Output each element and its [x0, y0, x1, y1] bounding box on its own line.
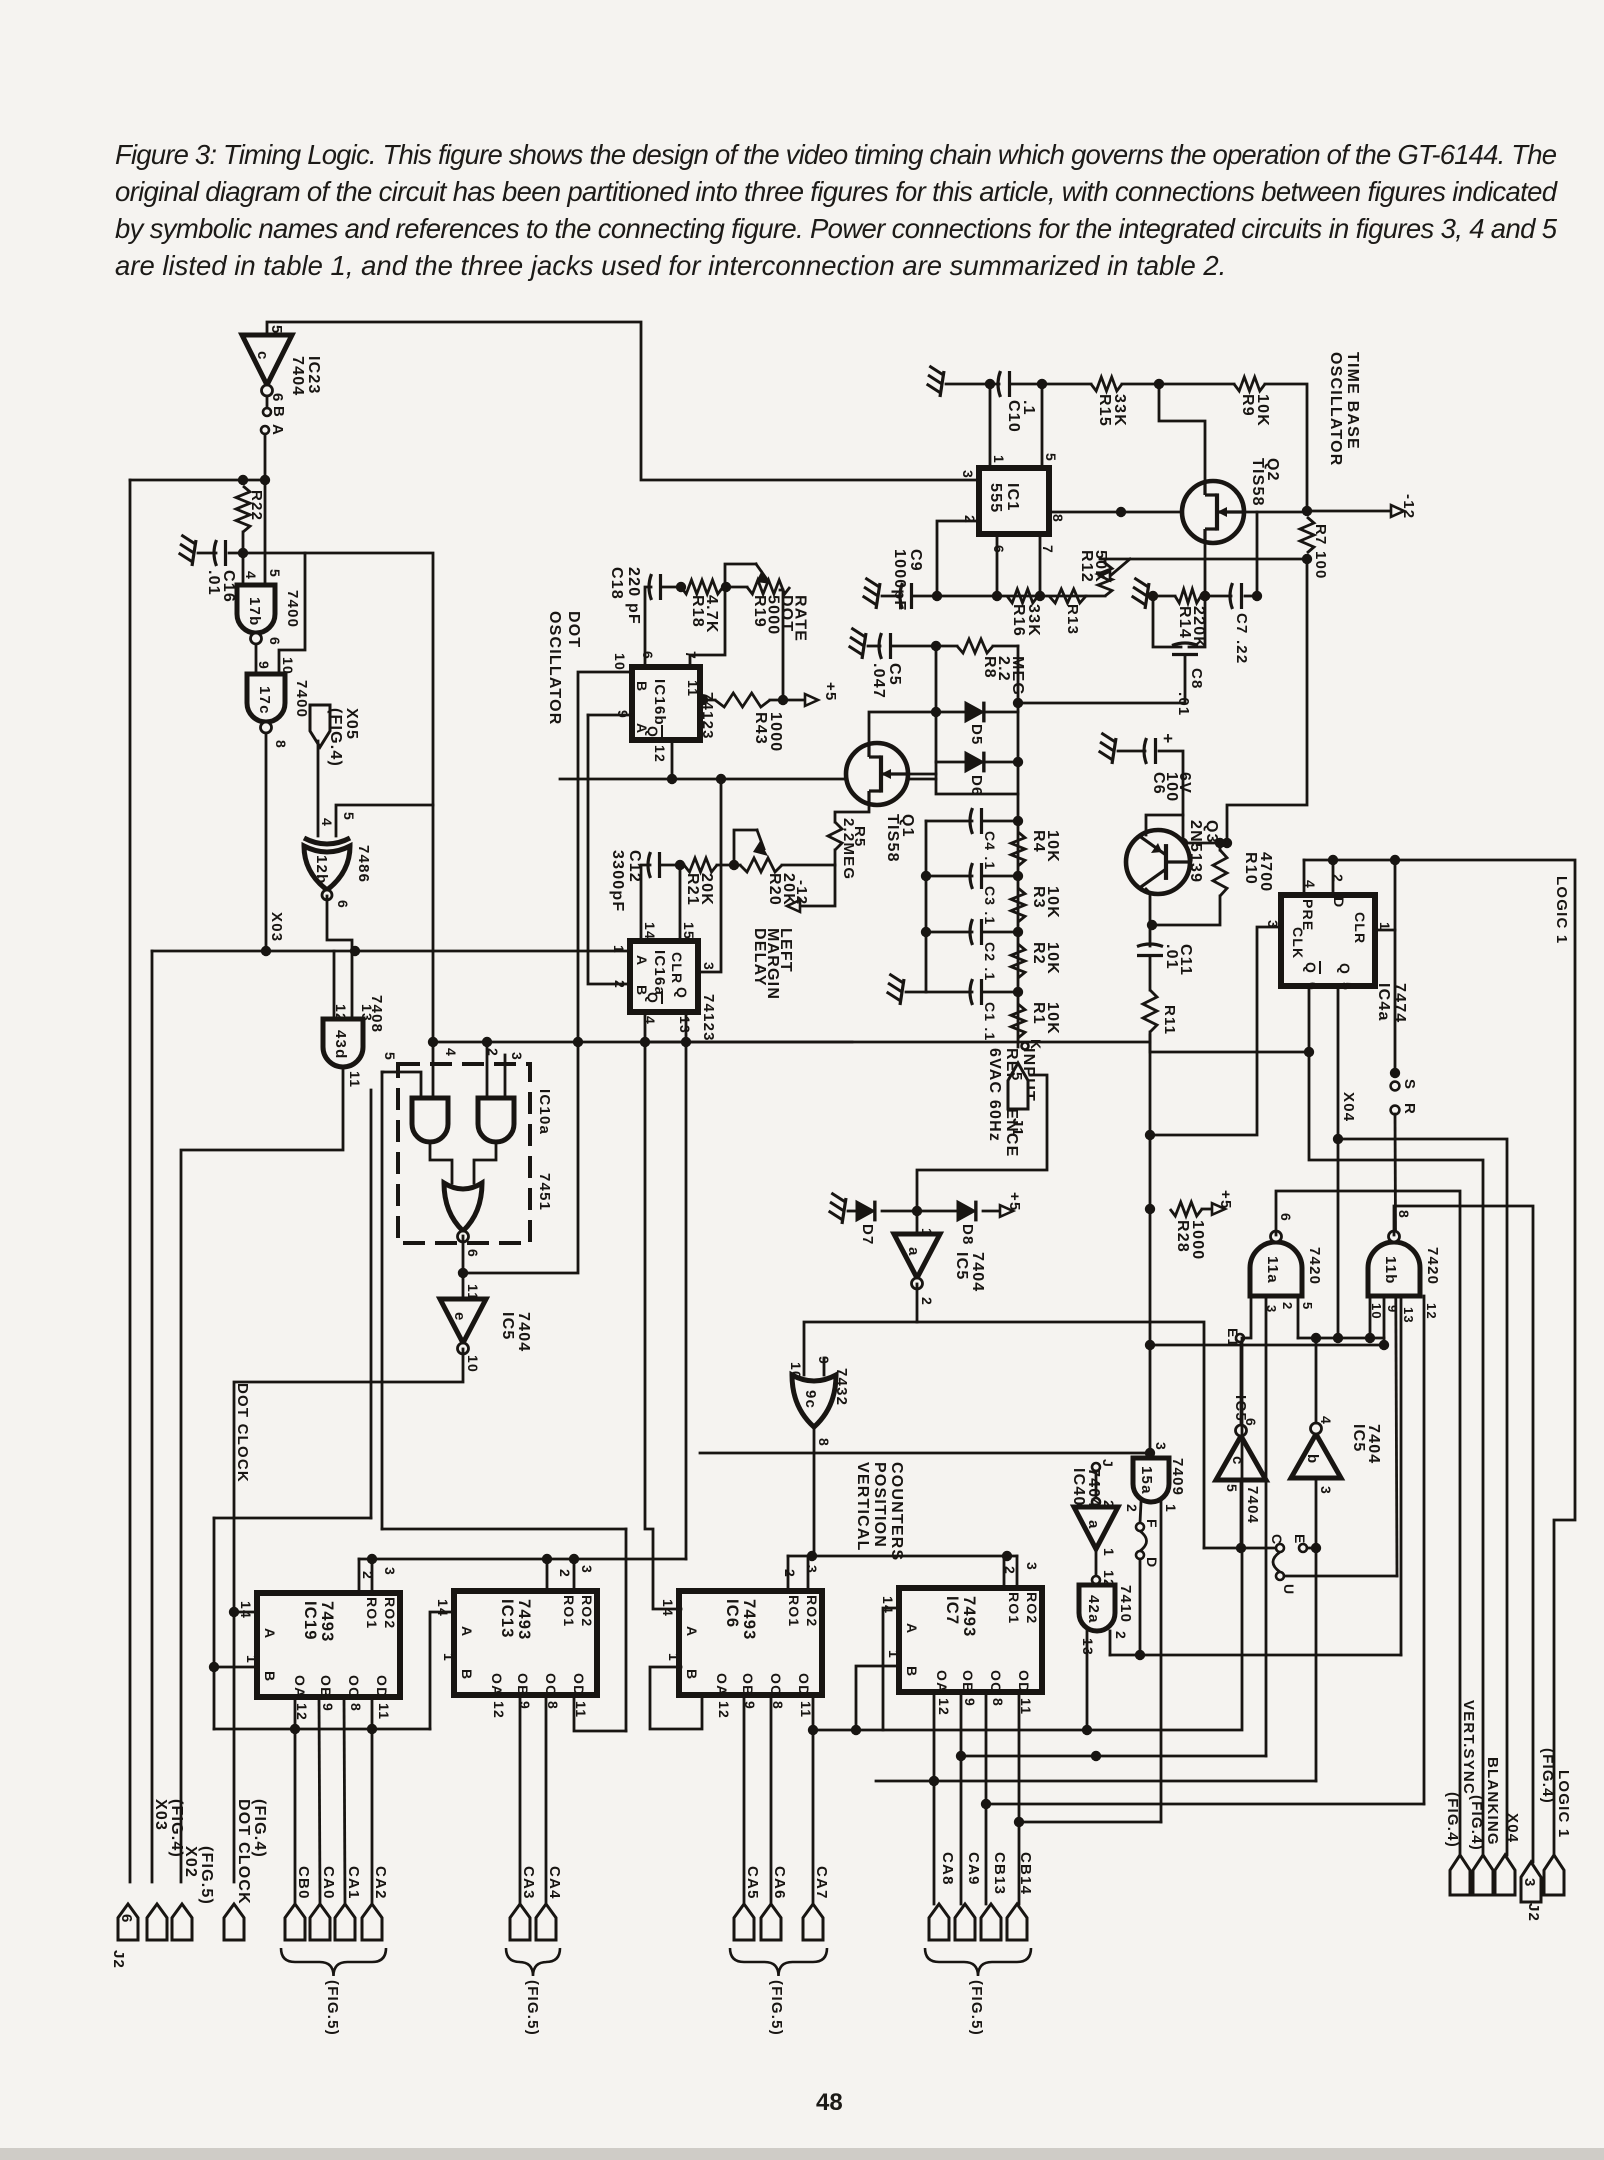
svg-text:2: 2	[962, 515, 978, 524]
junction 11b pin10 row	[1365, 1333, 1375, 1343]
svg-text:1: 1	[1163, 1504, 1179, 1513]
svg-text:DOT CLOCK(FIG.4): DOT CLOCK(FIG.4)	[235, 1799, 268, 1905]
svg-text:6: 6	[1278, 1213, 1294, 1222]
junction R43 right	[778, 695, 788, 705]
svg-text:3: 3	[1153, 1442, 1169, 1451]
svg-text:6: 6	[640, 651, 656, 660]
svg-text:CLR: CLR	[1352, 912, 1368, 944]
wire pin4 bus down	[645, 1042, 681, 1609]
junction R21-R20	[729, 860, 739, 870]
74123 label IC16b	[699, 692, 716, 740]
svg-text:4: 4	[319, 818, 335, 827]
connector CA2	[362, 1904, 382, 1940]
RO2 label IC19	[382, 1597, 398, 1629]
junction 42a pin1 cross	[1091, 1751, 1101, 1761]
wire Q2 drain up to R15-R9 junction	[1159, 384, 1205, 482]
connector CA1	[335, 1904, 355, 1940]
pin 11 label IC5e	[465, 1284, 481, 1301]
svg-text:10: 10	[612, 653, 628, 671]
pin 10 label IC16b	[612, 653, 628, 671]
C5 label	[870, 663, 903, 699]
pin 1 label IC4a	[1377, 922, 1393, 931]
wire ref input path	[917, 1075, 1047, 1211]
wire IC13 RO1 up	[546, 1559, 549, 1591]
connector CA5	[734, 1904, 754, 1940]
svg-text:VERT.SYNC: VERT.SYNC	[1460, 1700, 1477, 1795]
pin 6 label IC10a	[465, 1249, 481, 1258]
E1 label	[1225, 1328, 1241, 1348]
bus 42a out row	[1110, 1654, 1401, 1657]
bus OD row y1822	[1019, 1821, 1161, 1824]
wire IC19 OC down	[344, 1697, 345, 1904]
svg-text:R110K: R110K	[1030, 1002, 1061, 1035]
junction IC7 RO tie	[1002, 1551, 1012, 1561]
pin 5 label 12b	[341, 812, 357, 821]
pin 8 label IC1	[1050, 514, 1066, 523]
wire IC1 pin7 down	[1039, 534, 1042, 596]
svg-text:74123: 74123	[700, 994, 717, 1042]
resistor R9 10K	[1234, 377, 1265, 391]
ground at C9	[876, 583, 880, 609]
pin 1 label IC1	[991, 455, 1007, 464]
svg-text:C91000pF: C91000pF	[891, 549, 924, 611]
Q label IC16a	[674, 987, 690, 999]
svg-text:RO2: RO2	[382, 1597, 398, 1629]
junction pin4 node	[640, 1037, 650, 1047]
junction C18-R18	[676, 582, 686, 592]
svg-text:1: 1	[1101, 1548, 1117, 1557]
svg-text:+: +	[1163, 729, 1174, 748]
svg-text:CA0: CA0	[320, 1866, 337, 1900]
capacitor C18	[649, 574, 652, 600]
6VAC REFERENCE INPUT label	[986, 1048, 1037, 1157]
svg-text:5: 5	[341, 812, 357, 821]
R19 wiper arrowhead	[756, 570, 771, 584]
svg-text:7420: 7420	[1424, 1247, 1441, 1285]
transistor Q3 2N5139	[1126, 830, 1190, 894]
wire 11b pin9 stub	[1383, 1296, 1386, 1345]
connector CB0	[285, 1904, 305, 1940]
svg-text:6: 6	[118, 1914, 135, 1924]
node E1 ring	[1236, 1334, 1244, 1342]
junction X04 at 11a	[1333, 1333, 1343, 1343]
C6 label	[1150, 772, 1193, 802]
pin 2 label IC6	[782, 1569, 798, 1578]
svg-text:12: 12	[1424, 1303, 1439, 1320]
CA5 label	[744, 1866, 761, 1900]
C3 label	[982, 886, 998, 925]
svg-text:2: 2	[1280, 1302, 1295, 1310]
pin 11 label IC6	[798, 1701, 814, 1718]
svg-text:OA: OA	[714, 1673, 730, 1696]
pin 1 label IC19	[244, 1655, 260, 1664]
connector CA3	[510, 1904, 530, 1940]
svg-text:OA: OA	[489, 1673, 505, 1696]
ground top time base	[940, 371, 944, 397]
svg-text:R1250K: R1250K	[1078, 550, 1109, 583]
wire C18 to R18	[663, 586, 681, 589]
+5 label at R43	[822, 682, 839, 702]
svg-text:2: 2	[1113, 1631, 1129, 1640]
wire pin13 rail down	[685, 1042, 688, 1559]
svg-text:9: 9	[962, 1698, 978, 1707]
pin 8 label IC13	[545, 1701, 561, 1710]
svg-text:11b: 11b	[1382, 1256, 1399, 1285]
node C label	[1269, 1534, 1285, 1545]
brace group fig5 a	[281, 1948, 386, 1976]
C16 label	[205, 570, 237, 603]
CA9 label	[965, 1852, 982, 1886]
svg-text:5: 5	[1339, 982, 1355, 991]
node K ring	[1022, 1043, 1029, 1050]
ring IC40a input	[1092, 1498, 1100, 1506]
wire rail x371 up	[370, 1090, 373, 1518]
pin 12 label IC19	[294, 1703, 310, 1721]
svg-text:9: 9	[1385, 1305, 1400, 1313]
pin 2 label IC5a	[919, 1297, 935, 1306]
pin 3 label IC6	[804, 1565, 820, 1574]
svg-text:5: 5	[268, 325, 285, 335]
brace group fig5 d	[925, 1948, 1031, 1976]
svg-text:OD: OD	[1016, 1670, 1032, 1693]
resistor R1 10K	[1011, 1004, 1025, 1038]
resistor R28 1000	[1170, 1202, 1202, 1216]
pin 5 label IC4a	[1339, 982, 1355, 991]
R3 label	[1030, 886, 1061, 919]
svg-text:IC237404: IC237404	[289, 356, 322, 396]
svg-text:CA5: CA5	[744, 1866, 761, 1900]
svg-text:+5: +5	[1006, 1192, 1023, 1212]
R14 label	[1176, 606, 1207, 649]
bus R28 to 11b pin9	[1150, 1344, 1384, 1347]
17c gate label	[256, 686, 273, 715]
svg-text:R2020K: R2020K	[766, 873, 797, 906]
svg-text:R431000: R431000	[752, 712, 784, 752]
pin 13 label 11b	[1401, 1307, 1416, 1324]
svg-text:RO1: RO1	[364, 1597, 380, 1629]
wire C11 to R11	[1149, 957, 1152, 990]
wire IC5c input from E1	[1240, 1342, 1243, 1425]
svg-text:12: 12	[936, 1698, 952, 1716]
X04 net label	[1340, 1092, 1357, 1122]
wire C3 right	[984, 875, 1018, 878]
svg-text:OA: OA	[292, 1675, 308, 1698]
wire R13 to R12	[1086, 595, 1105, 598]
svg-text:OD: OD	[571, 1673, 587, 1696]
resistor R3 10K	[1011, 888, 1025, 922]
svg-text:10: 10	[1369, 1303, 1384, 1320]
wire IC7 OC down	[985, 1692, 988, 1904]
connector CA7	[803, 1904, 823, 1940]
svg-text:A: A	[262, 1628, 278, 1639]
svg-text:(FIG.5): (FIG.5)	[324, 1980, 341, 2036]
wire rail x382 up	[381, 1072, 384, 1529]
wire gnd to D7	[848, 1210, 856, 1213]
svg-text:7409: 7409	[1169, 1458, 1186, 1496]
ground at C5	[862, 633, 866, 659]
43d gate label	[332, 1030, 349, 1059]
CLR label IC4a	[1352, 912, 1368, 944]
capacitor C1 .1	[970, 979, 973, 1005]
OD label IC6	[796, 1673, 812, 1696]
Qbar overbar IC16a	[661, 991, 663, 1004]
wire 11a pin2 rail	[1265, 1296, 1268, 1756]
pin 6 label IC5c	[1243, 1418, 1259, 1427]
CA8 label	[939, 1852, 956, 1886]
wire 9c out down	[813, 1427, 816, 1556]
wire pin4 input	[432, 805, 435, 1098]
wire R10 bottom to Q3 collector	[1152, 896, 1220, 925]
(FIG.5) label b	[524, 1980, 541, 2036]
pin 2 label 15a	[1124, 1504, 1140, 1513]
svg-text:12: 12	[491, 1701, 507, 1719]
wire 15a pin3 stub	[1150, 1453, 1151, 1458]
bus X04 row	[1298, 1337, 1384, 1340]
junction rail214 B	[209, 1662, 219, 1672]
svg-text:CA6: CA6	[771, 1866, 788, 1900]
junction IC7 B tap	[851, 1725, 861, 1735]
B label IC19	[262, 1671, 278, 1682]
R5 value label	[840, 818, 857, 880]
wire IC16b pin10	[578, 672, 632, 1042]
D7 label	[859, 1224, 876, 1246]
pin 10 label 11b	[1369, 1303, 1384, 1320]
IC5 label cb	[1350, 1424, 1382, 1464]
svg-text:17b: 17b	[246, 597, 263, 626]
-12 label	[1400, 494, 1417, 519]
wire node row y843	[1183, 842, 1227, 845]
wire IC19 RO2 up	[371, 1559, 374, 1593]
svg-text:C7 .22: C7 .22	[1233, 613, 1250, 664]
junction IC5b input X04row	[1311, 1333, 1321, 1343]
svg-text:11: 11	[685, 680, 701, 697]
R19 label	[751, 595, 809, 642]
svg-text:R1633K: R1633K	[1010, 604, 1042, 637]
IC5 label a	[953, 1252, 986, 1292]
svg-text:CA1: CA1	[345, 1866, 362, 1900]
wire IC16a pin3 right	[698, 779, 721, 972]
svg-text:OB: OB	[318, 1675, 334, 1698]
ground at C6	[1112, 738, 1116, 764]
svg-text:3: 3	[1318, 1486, 1334, 1495]
resistor R14 220K	[1175, 589, 1201, 603]
+5 label at R28	[1217, 1190, 1234, 1210]
pin 7 label IC16b	[683, 651, 699, 660]
junction ladder C3	[1013, 871, 1023, 881]
svg-text:IC77493: IC77493	[943, 1596, 978, 1638]
Q2 label	[1249, 458, 1281, 507]
junction C9 row a	[932, 591, 942, 601]
A label IC7	[904, 1623, 920, 1634]
C18 label	[608, 567, 642, 625]
svg-text:11: 11	[347, 1071, 363, 1088]
potentiometer R12 50K	[1098, 563, 1112, 596]
svg-text:CA4: CA4	[546, 1866, 563, 1900]
bus row y1042	[433, 1041, 1150, 1044]
junction R28 left	[1145, 1204, 1155, 1214]
wire pin13 row right	[645, 1041, 852, 1044]
R4 label	[1030, 830, 1061, 863]
wire Q3 base	[1172, 843, 1183, 862]
wire 11b pin10 stub	[1369, 1296, 1372, 1338]
pin 9 label IC13	[517, 1701, 533, 1710]
Q label IC4a	[1337, 963, 1353, 975]
J1 label	[1009, 1118, 1026, 1137]
pin 6 label IC23	[269, 393, 286, 403]
junction 9c out RO	[807, 1551, 817, 1561]
svg-text:8: 8	[990, 1698, 1006, 1707]
LOGIC 1 label right	[1553, 876, 1570, 944]
svg-text:7400: 7400	[293, 680, 310, 718]
D8 label	[959, 1224, 976, 1246]
connector X03 fig4	[147, 1904, 167, 1940]
R8 label	[981, 656, 1026, 696]
wire IC5c bottom	[1240, 1480, 1243, 1548]
pin 2 label IC16a	[612, 980, 628, 989]
wire IC7 B loop	[856, 1666, 899, 1730]
wire C10 to R15	[1012, 383, 1091, 386]
OC label IC6	[768, 1673, 784, 1696]
svg-text:6: 6	[267, 637, 283, 646]
wire R15 to R9	[1122, 383, 1234, 386]
wire IC5b input	[1315, 1338, 1318, 1423]
svg-text:8: 8	[273, 740, 289, 749]
wire 42a out	[1109, 1631, 1112, 1655]
svg-text:9: 9	[320, 1703, 336, 1712]
pin 5 label IC10a	[382, 1052, 398, 1061]
capacitor C8 .01	[1172, 643, 1198, 646]
pin 4 label 17b	[243, 571, 259, 580]
J2 pin3 number	[1521, 1878, 1538, 1888]
node R ring	[1391, 1106, 1400, 1115]
svg-text:6: 6	[269, 393, 286, 403]
(FIG.5) label d	[968, 1980, 985, 2036]
pin 12 label 42a	[1101, 1570, 1117, 1588]
wire C4 left	[926, 820, 972, 823]
node F ring	[1136, 1523, 1144, 1531]
wire rail x626	[625, 1529, 628, 1731]
svg-text:(FIG.4): (FIG.4)	[1444, 1792, 1461, 1848]
wire left rail top	[130, 479, 265, 482]
IC IC19 7493	[257, 1593, 400, 1697]
svg-text:3: 3	[804, 1565, 820, 1574]
svg-text:OB: OB	[740, 1673, 756, 1696]
diode D7	[856, 1201, 875, 1222]
R15 label	[1096, 394, 1128, 427]
wire C4 right	[984, 820, 1018, 823]
J2 label right	[1525, 1903, 1542, 1922]
svg-text:-12: -12	[793, 880, 810, 905]
svg-text:E: E	[1292, 1534, 1308, 1545]
wire Q2 gate right to R7 node	[1244, 511, 1307, 514]
junction feedback row	[573, 1037, 583, 1047]
wire R12 wiper diag	[1110, 559, 1130, 576]
svg-text:14: 14	[435, 1599, 451, 1617]
node R label	[1401, 1103, 1418, 1115]
svg-text:5: 5	[1043, 453, 1059, 462]
OA label IC6	[714, 1673, 730, 1696]
pin 2 label IC4a	[1330, 874, 1346, 883]
OB label IC13	[515, 1673, 531, 1696]
svg-text:OC: OC	[346, 1675, 362, 1698]
wire R7 rail down to Q3	[1227, 559, 1307, 843]
svg-text:1: 1	[991, 455, 1007, 464]
svg-text:1: 1	[611, 945, 627, 954]
svg-text:a: a	[905, 1247, 922, 1257]
junction D rail top	[1013, 698, 1023, 708]
(FIG.5) label c	[768, 1980, 785, 2036]
wire 11a pin5 stub	[1297, 1296, 1300, 1338]
pin 5 label IC1	[1043, 453, 1059, 462]
svg-text:5: 5	[267, 569, 283, 578]
junction R11 row right	[1304, 1047, 1314, 1057]
wire D7 to node	[882, 1210, 957, 1213]
pin 11 label IC13	[573, 1701, 589, 1718]
CA4 label	[546, 1866, 563, 1900]
RO1 label IC6	[786, 1595, 802, 1627]
pin 12 label IC16b	[652, 745, 668, 763]
svg-text:2: 2	[557, 1569, 573, 1578]
pin 1 label 15a	[1163, 1504, 1179, 1513]
R22 label	[248, 490, 265, 521]
IC16a label	[651, 950, 668, 996]
pin 5 label 17b	[267, 569, 283, 578]
wiper loop R20	[734, 830, 757, 865]
wire C8 bottom lead	[1018, 655, 1185, 703]
74123 label IC16a	[700, 994, 717, 1042]
7432 label	[833, 1368, 850, 1406]
IC7 designation	[943, 1596, 978, 1638]
junction C10 right	[1037, 379, 1047, 389]
C8 label	[1188, 668, 1205, 690]
pin 8 label IC19	[348, 1703, 364, 1712]
node F label	[1144, 1519, 1160, 1529]
7420 label 11a	[1306, 1247, 1323, 1285]
wire 11b pin13 rail	[1400, 1296, 1403, 1655]
connector CA0	[310, 1904, 330, 1940]
+5 arrowhead at R28	[1212, 1203, 1225, 1215]
svg-text:D: D	[1331, 897, 1347, 908]
resistor R22	[236, 486, 250, 532]
svg-text:(FIG.5): (FIG.5)	[968, 1980, 985, 2036]
OA label IC19	[292, 1675, 308, 1698]
X03 net label	[268, 912, 285, 942]
svg-text:4: 4	[443, 1048, 459, 1057]
R1 label	[1030, 1002, 1061, 1035]
svg-text:12: 12	[716, 1701, 732, 1719]
junction Q2 source C7	[1200, 591, 1210, 601]
gate letter c IC23	[254, 351, 271, 361]
pin 3 label IC5b	[1318, 1486, 1334, 1495]
wire pin15 from junction	[679, 865, 682, 941]
junction OD tap	[1014, 1817, 1024, 1827]
junction R15-R9	[1154, 379, 1164, 389]
CA3 label	[520, 1866, 537, 1900]
Q1 label	[884, 814, 916, 863]
Qbar overbar IC4a	[1319, 961, 1321, 974]
svg-text:IC16b: IC16b	[651, 679, 668, 726]
brace group fig5 b	[506, 1948, 560, 1976]
svg-text:11: 11	[376, 1703, 392, 1720]
17b gate label	[246, 597, 263, 626]
capacitor C4 .1	[970, 808, 973, 834]
wire -12 node to arrow	[1307, 510, 1391, 513]
wire and right out	[474, 1142, 496, 1183]
svg-text:9: 9	[256, 661, 272, 670]
connector DOT CLOCK fig4	[224, 1904, 244, 1940]
pin 4 label IC10a	[443, 1048, 459, 1057]
junction D6 right	[1013, 757, 1023, 767]
